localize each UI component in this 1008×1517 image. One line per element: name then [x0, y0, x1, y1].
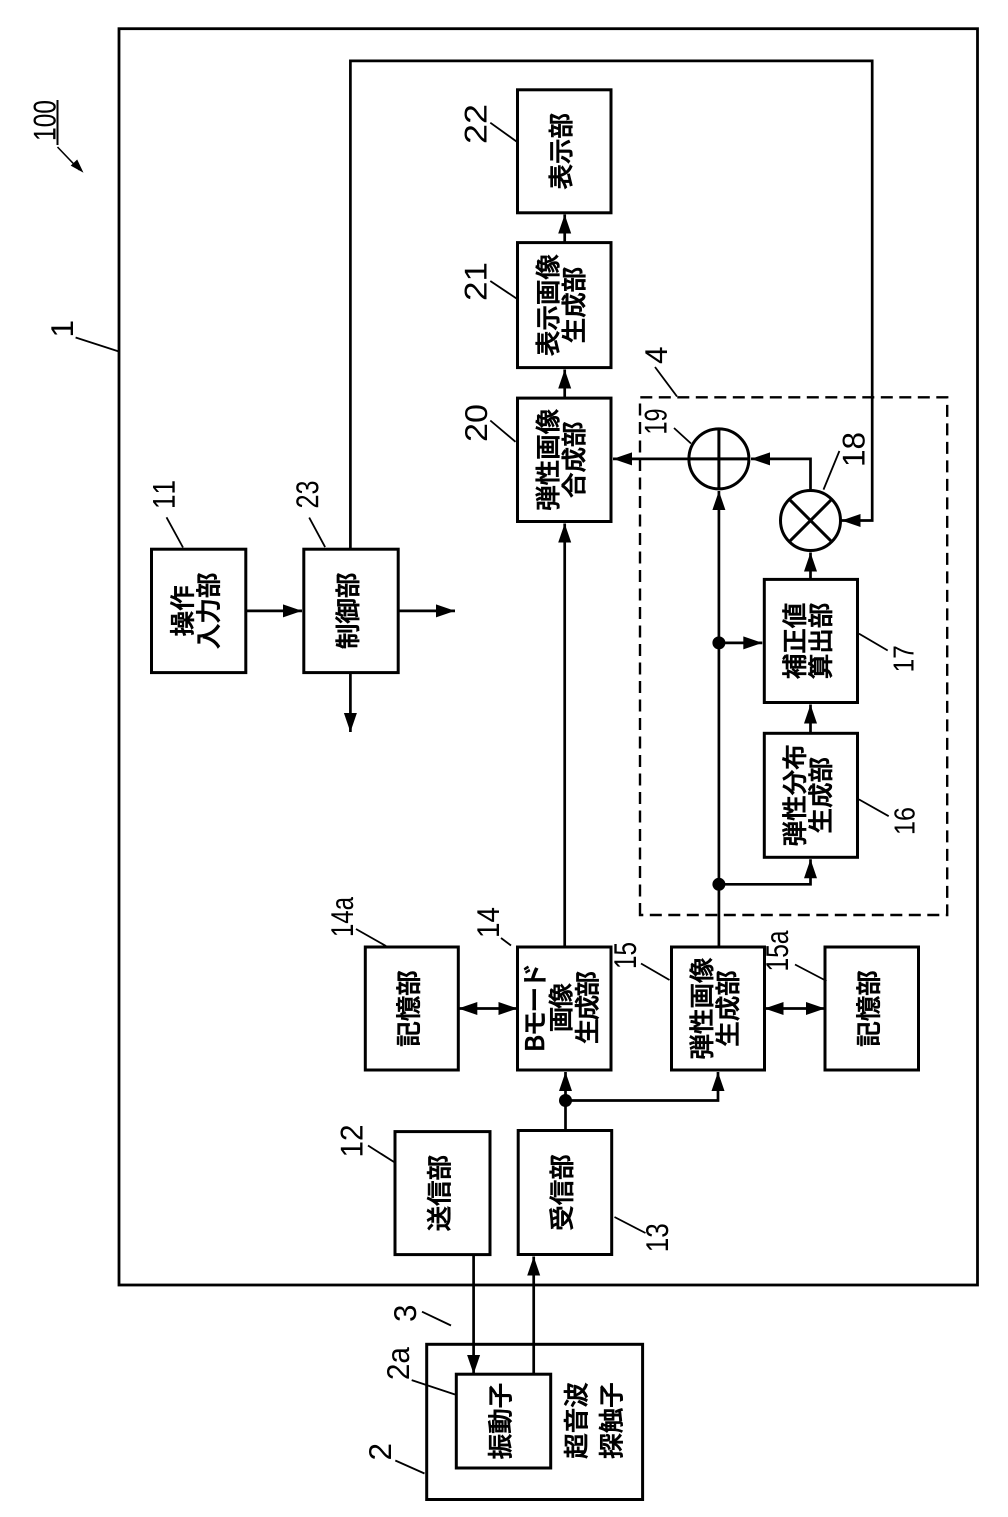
- block 21 表示画像生成部: [518, 243, 612, 368]
- block 15a 記憶部: [825, 947, 919, 1070]
- block 14a 記憶部: [365, 947, 458, 1070]
- wire 操作入力部→制御部: [246, 604, 302, 617]
- wire 加算器19→弾性画像合成部: [613, 452, 689, 465]
- wire 弾性画像生成部→加算器19: [712, 491, 725, 947]
- multiplier 18: [781, 491, 841, 551]
- wire 弾性画像生成部↔記憶部15a: [765, 1002, 826, 1015]
- wire 振動子→受信部: [527, 1257, 540, 1375]
- wire branch→弾性分布生成部: [719, 859, 817, 884]
- junction node a: [712, 636, 725, 649]
- block 17 補正値算出部: [764, 579, 857, 702]
- wire Bモード画像生成部→弾性画像合成部: [558, 524, 571, 948]
- reference 11: [153, 481, 183, 547]
- block 22 表示部: [518, 90, 612, 213]
- block 12 送信部: [395, 1132, 490, 1255]
- block 20 弾性画像合成部: [518, 398, 612, 521]
- reference 4: [645, 347, 677, 396]
- block 23 制御部: [304, 549, 398, 672]
- junction node b: [712, 878, 725, 891]
- wire branch→補正値算出部: [719, 636, 762, 649]
- wire 乗算器18→加算器19: [751, 452, 811, 490]
- wire 補正値算出部→乗算器18: [804, 553, 817, 580]
- reference 15: [614, 943, 669, 980]
- reference 19: [645, 410, 691, 444]
- reference 20: [465, 405, 515, 441]
- wire branch→弾性画像生成部: [566, 1072, 725, 1101]
- reference 14: [477, 908, 511, 946]
- block 2a 振動子: [456, 1374, 550, 1468]
- reference 16: [859, 799, 915, 833]
- reference 23: [296, 482, 325, 547]
- wire 制御部 control down: [398, 604, 455, 617]
- reference 22: [465, 106, 517, 142]
- apparatus frame 1: [119, 29, 978, 1285]
- wire 受信部→Bモード画像生成部: [559, 1072, 572, 1131]
- reference 1: [51, 322, 118, 352]
- probe 2 超音波探触子: [427, 1344, 643, 1499]
- reference 12: [341, 1126, 394, 1162]
- block 16 弾性分布生成部: [764, 733, 857, 857]
- reference 17: [859, 634, 914, 671]
- wire 弾性画像合成部→表示画像生成部: [558, 370, 571, 399]
- reference 3: [394, 1306, 451, 1326]
- reference 13: [615, 1217, 669, 1250]
- block 11 操作入力部: [152, 549, 246, 672]
- wire 送信部→振動子: [467, 1255, 480, 1374]
- junction node c: [559, 1094, 572, 1107]
- wire 弾性分布生成部→補正値算出部: [804, 705, 817, 734]
- block 15 弾性画像生成部: [672, 947, 765, 1070]
- block 13 受信部: [518, 1131, 612, 1255]
- wire 制御部→乗算器18 loop: [350, 61, 872, 549]
- reference 18: [824, 433, 865, 489]
- reference 15a: [766, 931, 826, 981]
- dashed unit 4: [640, 397, 947, 915]
- adder 19: [689, 429, 749, 489]
- reference 100: [34, 100, 84, 173]
- reference 14a: [331, 897, 386, 946]
- wire 制御部 control left: [344, 673, 357, 732]
- wire 記憶部14a↔Bモード画像生成部: [458, 1002, 517, 1015]
- reference 2: [369, 1445, 424, 1474]
- reference 21: [465, 264, 517, 300]
- reference 2a: [387, 1347, 455, 1394]
- block 14 Bモード画像生成部: [518, 947, 612, 1070]
- wire 表示画像生成部→表示部: [558, 215, 571, 243]
